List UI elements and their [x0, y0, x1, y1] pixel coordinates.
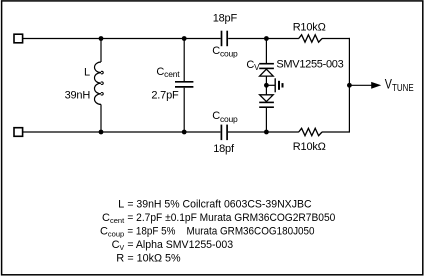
svg-text:18pf: 18pf — [213, 143, 235, 155]
junction dot (Ccent bottom) — [182, 130, 187, 135]
junction dot (varactor center node) — [264, 83, 269, 88]
junction dot (varactor bottom) — [264, 130, 269, 135]
junction dot (L top) — [99, 36, 104, 41]
svg-text:= Alpha SMV1255-003: = Alpha SMV1255-003 — [127, 239, 233, 251]
inductor L — [94, 39, 103, 133]
wire bottom rail: resistor R2 to right corner — [322, 131, 350, 133]
wire top rail: terminal to Ccoup — [23, 38, 221, 40]
wire top rail: Ccoup to resistor R1 — [228, 38, 299, 40]
wire bottom rail: Ccoup to resistor R2 — [228, 131, 299, 133]
svg-text:= 2.7pF ±0.1pF Murata GRM36COG: = 2.7pF ±0.1pF Murata GRM36COG2R7B050 — [127, 212, 335, 224]
capacitor Ccent — [175, 39, 193, 133]
svg-text:Ccent: Ccent — [156, 66, 180, 79]
svg-text:Ccoup: Ccoup — [212, 110, 238, 124]
terminal (top-left input) — [14, 34, 23, 43]
wire top rail: resistor R1 to right corner — [322, 38, 350, 40]
junction dot (VTUNE tap) — [347, 83, 352, 88]
junction dot (Ccent top) — [182, 36, 187, 41]
junction dot (varactor top) — [264, 36, 269, 41]
svg-text:L: L — [118, 199, 124, 211]
resistor R1 (top) — [299, 35, 322, 42]
svg-text:Ccent: Ccent — [102, 212, 125, 225]
svg-text:2.7pF: 2.7pF — [151, 90, 179, 102]
resistor R2 (bottom) — [299, 128, 322, 135]
svg-text:SMV1255-003: SMV1255-003 — [276, 59, 343, 71]
svg-text:= 10kΩ 5%: = 10kΩ 5% — [127, 252, 181, 264]
svg-text:R: R — [116, 252, 124, 264]
svg-text:CV: CV — [112, 239, 125, 252]
capacitor Ccoup (top) — [222, 31, 228, 47]
svg-text:18pF: 18pF — [213, 13, 238, 25]
varactor CV (bottom diode) — [259, 95, 274, 132]
svg-text:CV: CV — [246, 59, 260, 72]
wire VTUNE arrow — [349, 82, 381, 89]
junction dot (L bottom) — [99, 130, 104, 135]
varactor CV (top diode) — [259, 39, 274, 95]
svg-text:VTUNE: VTUNE — [385, 76, 414, 93]
svg-text:Ccoup: Ccoup — [212, 45, 238, 59]
svg-text:R10kΩ: R10kΩ — [293, 22, 326, 34]
svg-text:R10kΩ: R10kΩ — [293, 141, 326, 153]
svg-text:= 39nH 5% Coilcraft 0603CS-39N: = 39nH 5% Coilcraft 0603CS-39NXJBC — [127, 199, 311, 211]
capacitor Ccoup (bottom) — [221, 125, 227, 141]
wire right rail — [348, 38, 350, 132]
svg-text:39nH: 39nH — [65, 89, 91, 101]
terminal (bottom-left input) — [14, 128, 23, 137]
ground (center node of varactors) — [266, 78, 282, 92]
svg-text:L: L — [84, 66, 90, 78]
svg-text:Ccoup: Ccoup — [100, 226, 124, 239]
svg-text:= 18pF 5% Murata GRM36COG18: = 18pF 5% Murata GRM36COG180J050 — [127, 226, 314, 238]
wire bottom rail: terminal to Ccoup — [23, 131, 221, 133]
